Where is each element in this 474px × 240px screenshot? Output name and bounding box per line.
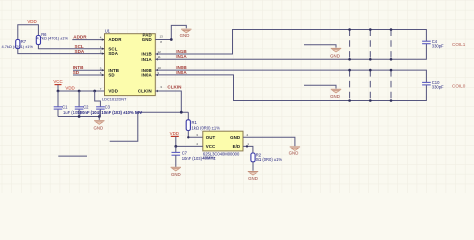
capacitor C3 [95, 91, 101, 107]
svg-text:C1: C1 [62, 105, 68, 110]
svg-text:IN1B: IN1B [176, 49, 187, 54]
svg-text:100nF (104) 10nF (103) ±10% 50: 100nF (104) 10nF (103) ±10% 50V [78, 110, 143, 115]
svg-text:11: 11 [158, 55, 161, 59]
wire SD [73, 74, 104, 76]
resistor R2 [251, 153, 255, 162]
svg-text:VDD: VDD [108, 89, 118, 94]
resistor R1 [186, 120, 190, 131]
svg-text:GND: GND [142, 37, 152, 42]
wire R1 to OUT [188, 131, 203, 138]
svg-text:OUT: OUT [206, 135, 216, 140]
wire IN0B coil0 top rail [155, 70, 426, 82]
svg-text:C7: C7 [182, 151, 188, 156]
svg-text:IN1A: IN1A [176, 54, 187, 59]
resistor R7 [16, 40, 20, 49]
svg-text:CLKIN: CLKIN [167, 85, 182, 90]
svg-text:CLKIN: CLKIN [138, 89, 152, 94]
svg-text:ADDR: ADDR [108, 37, 122, 42]
ground (coil0) [331, 88, 341, 90]
svg-text:330pF: 330pF [432, 85, 444, 90]
wire SDA [18, 49, 105, 54]
wire INTB [73, 69, 104, 71]
svg-text:330pF: 330pF [432, 44, 444, 49]
coil1 dashed verticals [349, 30, 351, 60]
svg-text:E/D: E/D [233, 144, 241, 149]
svg-text:LDC1612DNT: LDC1612DNT [102, 96, 127, 101]
svg-text:GND: GND [171, 172, 181, 177]
wire VDD to VCC pin [176, 136, 203, 146]
svg-text:R1: R1 [192, 120, 198, 125]
svg-text:U1: U1 [105, 28, 111, 33]
svg-text:SDA: SDA [108, 51, 118, 56]
svg-text:VDD: VDD [27, 19, 36, 24]
ground (C7) [171, 166, 181, 168]
svg-text:VDD: VDD [170, 131, 179, 136]
wire GND pin to ground [155, 25, 186, 39]
svg-text:40MHz: 40MHz [202, 156, 215, 161]
wire clk to R1 [187, 112, 189, 120]
svg-text:SD: SD [73, 70, 80, 75]
svg-text:VCC: VCC [206, 144, 216, 149]
svg-text:GND: GND [330, 53, 340, 58]
wire E/D pin to R2 [243, 146, 253, 153]
svg-text:IN0A: IN0A [141, 73, 152, 78]
svg-text:4.7kΩ (4701) ±1%: 4.7kΩ (4701) ±1% [37, 36, 69, 41]
ground (top, near U1) [181, 28, 191, 30]
wire VDD rail [58, 90, 104, 92]
ground (R2) [248, 171, 258, 173]
svg-text:COIL0: COIL0 [452, 83, 466, 88]
ground (osc pin2) [290, 146, 300, 148]
capacitor C10 [422, 81, 431, 83]
svg-text:GND: GND [230, 135, 240, 140]
svg-text:4.7kΩ (4701) ±1%: 4.7kΩ (4701) ±1% [2, 44, 34, 49]
svg-text:IN1A: IN1A [141, 57, 152, 62]
wire CLKIN [155, 91, 181, 112]
svg-text:12: 12 [158, 50, 162, 54]
svg-text:ADDR: ADDR [73, 34, 87, 39]
wire SCL [38, 45, 104, 49]
svg-text:IN1B: IN1B [141, 52, 151, 57]
svg-text:VDD: VDD [65, 85, 74, 90]
wire IN1B to coil1 top rail [155, 30, 426, 55]
ground (decoupling) [98, 117, 100, 120]
wire coil0 gnd stub [304, 85, 336, 88]
ground (coil1) [331, 47, 341, 49]
coil0 dashed verticals [349, 70, 351, 100]
wire osc GND pin2 to ground [243, 137, 295, 146]
svg-text:10: 10 [158, 66, 162, 70]
svg-text:0Ω (0R0) ±1%: 0Ω (0R0) ±1% [256, 157, 283, 162]
wire caps bottom rail [58, 116, 100, 118]
svg-text:C2: C2 [83, 105, 89, 110]
wire VCC stem [57, 85, 59, 91]
capacitor C2 [78, 91, 80, 107]
capacitor C4 [422, 40, 431, 42]
wire VDD to R7/R6 [18, 25, 39, 40]
svg-text:GND: GND [180, 33, 190, 38]
svg-text:VCC: VCC [53, 79, 62, 84]
wire R2 to ground [252, 162, 254, 171]
svg-text:COIL1: COIL1 [452, 42, 466, 47]
capacitor C1 [57, 91, 59, 107]
wire IN0A to coil0 bottom rail [155, 75, 426, 101]
svg-text:GND: GND [289, 151, 299, 156]
svg-text:R7: R7 [21, 39, 27, 44]
svg-text:13: 13 [160, 34, 164, 38]
svg-text:10nF (103): 10nF (103) [182, 156, 203, 161]
svg-text:GND: GND [93, 125, 103, 130]
svg-text:SDA: SDA [75, 49, 85, 54]
wire IN1A coil1 bottom rail [155, 44, 426, 60]
wire clk horizontal + L stub [110, 112, 189, 141]
svg-text:C3: C3 [105, 105, 111, 110]
oscillator body [203, 131, 243, 151]
svg-text:1kΩ (0R0) ±1%: 1kΩ (0R0) ±1% [192, 126, 221, 131]
wire coil1 gnd stub [304, 45, 336, 48]
resistor R6 [36, 36, 40, 45]
capacitor C7 [175, 146, 177, 152]
wire floating stub [58, 155, 87, 157]
wire ADDR [72, 39, 104, 41]
IC U1 LDC1612DNT body [105, 34, 156, 96]
svg-text:GND: GND [330, 94, 340, 99]
svg-text:SD: SD [108, 73, 114, 78]
svg-text:GND: GND [248, 176, 258, 181]
